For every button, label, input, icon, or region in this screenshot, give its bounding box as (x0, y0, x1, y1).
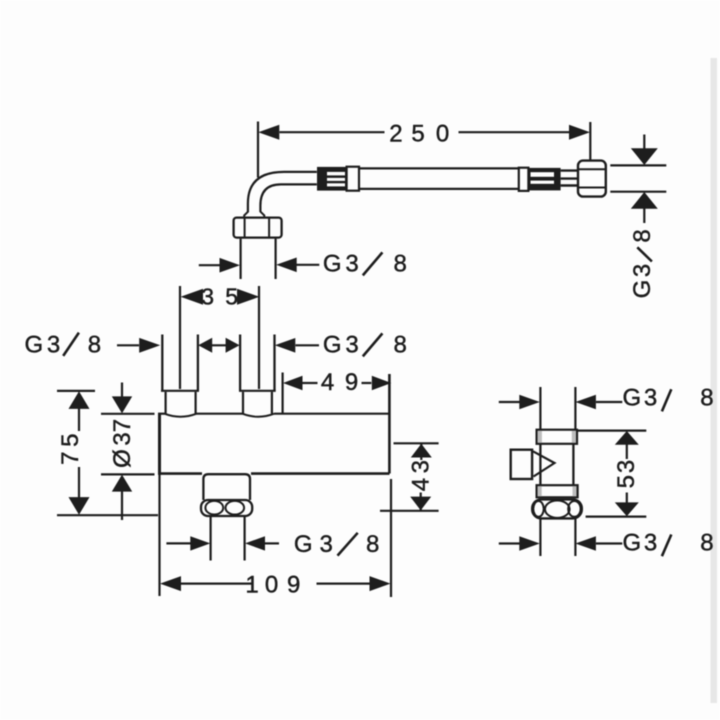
svg-text:0: 0 (436, 121, 449, 148)
svg-text:4: 4 (408, 478, 435, 491)
svg-text:8: 8 (700, 385, 713, 412)
svg-text:3: 3 (613, 460, 640, 473)
svg-text:8: 8 (629, 229, 656, 242)
svg-text:5: 5 (57, 434, 84, 447)
svg-text:G: G (622, 385, 641, 412)
svg-text:8: 8 (394, 250, 407, 277)
svg-text:8: 8 (88, 331, 101, 358)
svg-text:0: 0 (265, 571, 278, 598)
svg-text:9: 9 (345, 369, 358, 396)
svg-text:G: G (629, 280, 656, 299)
svg-text:5: 5 (411, 121, 424, 148)
svg-text:2: 2 (389, 121, 402, 148)
svg-text:G: G (24, 331, 43, 358)
svg-text:3: 3 (644, 385, 657, 412)
svg-text:3: 3 (47, 331, 60, 358)
svg-text:3: 3 (345, 250, 358, 277)
svg-text:7: 7 (109, 419, 136, 432)
svg-text:5: 5 (613, 475, 640, 488)
svg-text:9: 9 (287, 571, 300, 598)
svg-text:Ø: Ø (109, 449, 136, 468)
svg-text:G: G (294, 531, 313, 558)
svg-text:4: 4 (321, 369, 334, 396)
svg-text:1: 1 (245, 571, 258, 598)
svg-text:G: G (622, 530, 641, 557)
svg-text:G: G (323, 250, 342, 277)
svg-text:3: 3 (201, 284, 214, 310)
svg-text:8: 8 (394, 331, 407, 358)
svg-text:3: 3 (345, 331, 358, 358)
svg-text:8: 8 (700, 530, 713, 557)
svg-text:5: 5 (225, 284, 238, 310)
svg-text:7: 7 (57, 452, 84, 465)
svg-text:3: 3 (629, 264, 656, 277)
svg-text:8: 8 (366, 531, 379, 558)
svg-text:3: 3 (320, 531, 333, 558)
svg-text:3: 3 (644, 530, 657, 557)
svg-text:3: 3 (109, 432, 136, 445)
svg-text:G: G (323, 331, 342, 358)
svg-text:3: 3 (408, 460, 435, 473)
